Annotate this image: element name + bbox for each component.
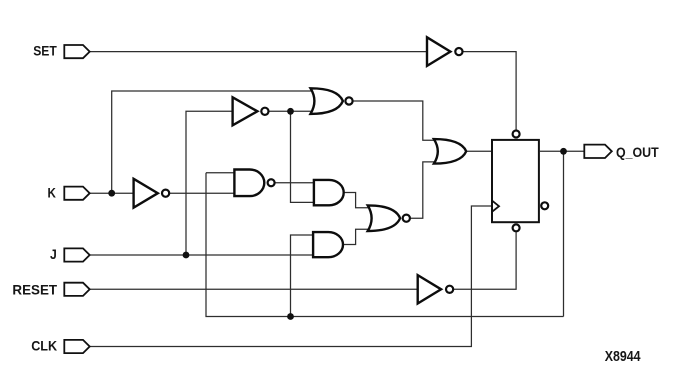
svg-text:X8944: X8944: [605, 348, 641, 365]
svg-text:J: J: [50, 246, 57, 262]
svg-text:Q_OUT: Q_OUT: [616, 144, 659, 160]
svg-text:SET: SET: [33, 43, 57, 59]
svg-text:RESET: RESET: [12, 282, 57, 298]
svg-text:CLK: CLK: [31, 338, 57, 354]
svg-text:K: K: [48, 185, 56, 201]
